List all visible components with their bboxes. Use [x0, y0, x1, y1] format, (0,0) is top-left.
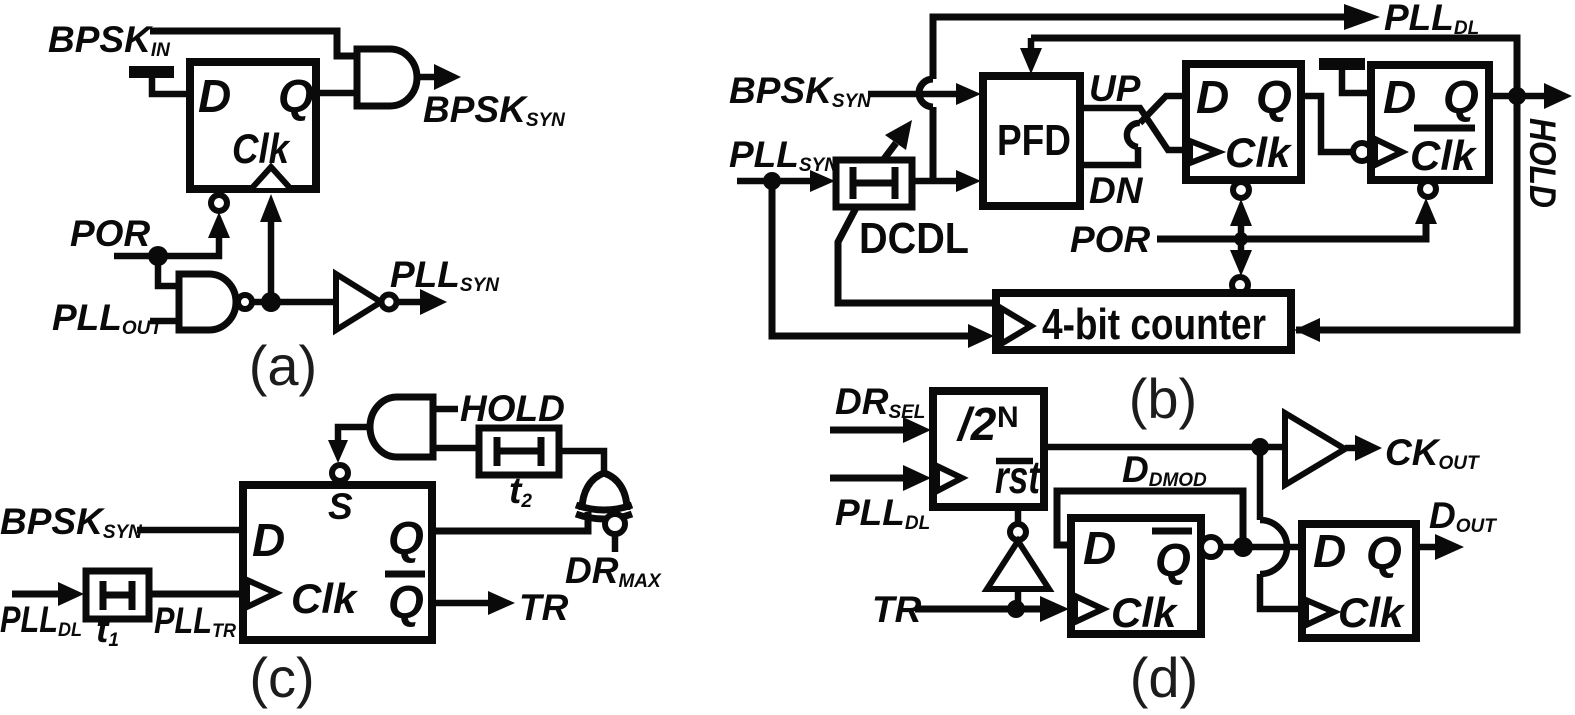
arrowhead into FF5 clock	[1040, 596, 1069, 622]
FF6 clock triangle	[1306, 600, 1334, 625]
wire HOLD to AND input	[433, 406, 458, 413]
arrowhead TR	[488, 591, 515, 615]
wire clock node to FF1 clock	[268, 220, 275, 302]
svg-text:POR: POR	[1070, 219, 1150, 260]
inverter bubble	[382, 295, 397, 310]
arrowhead into FF1 clock	[260, 194, 282, 222]
FF2 clock triangle	[1190, 141, 1218, 163]
wire tie stub to FF3 D	[1342, 70, 1371, 93]
wire FF4 Q to XOR input	[432, 512, 588, 531]
svg-text:HOLD: HOLD	[1522, 118, 1563, 208]
arrow PLL_DL into t1	[12, 591, 60, 598]
wire PLL_OUT stub to NAND bottom input	[150, 318, 179, 325]
wire t2 to XOR output	[559, 451, 604, 474]
FF5 clock triangle	[1075, 596, 1103, 622]
wire BPSK_SYN into PFD	[868, 91, 958, 98]
wire POR junction to NAND top input	[158, 256, 179, 286]
arrowhead PLL_DL	[1344, 4, 1380, 30]
t2 delay symbol	[494, 437, 501, 466]
wire POR	[1157, 222, 1426, 239]
FF4 clock triangle	[247, 580, 276, 607]
wire counter output to DCDL control	[838, 206, 996, 303]
wire inverter to TR node	[1015, 589, 1022, 609]
t1 delay box	[86, 571, 149, 619]
FF5 Qbar bubble	[1201, 537, 1221, 557]
wire vertical down to DCDL output node	[930, 107, 937, 181]
arrowhead into PFD fb input	[956, 170, 981, 192]
FF3 clock triangle	[1375, 139, 1402, 165]
wire AND input to t2	[433, 445, 479, 452]
FF3 label Clk inverted	[1414, 125, 1475, 132]
svg-text:N: N	[997, 401, 1019, 434]
wire down into PFD top	[1028, 38, 1035, 52]
wire divider rst to inverter	[1015, 507, 1022, 524]
svg-text:S: S	[328, 486, 353, 527]
arrowhead into FF1 reset bubble	[208, 212, 230, 238]
arrowhead D_OUT	[1435, 534, 1464, 560]
NAND gate G1	[179, 274, 236, 330]
junction dot POR	[1234, 232, 1248, 246]
svg-text:POR: POR	[70, 213, 150, 254]
junction dot CK node	[1251, 438, 1269, 456]
inverter G2	[336, 274, 381, 330]
junction dot clock node	[261, 292, 281, 312]
arrowhead into DCDL	[810, 170, 835, 192]
wire UP to FF2 clock crossing	[1080, 108, 1186, 150]
junction dot PLL_SYN	[763, 172, 781, 190]
arrowhead into FF2 reset bubble	[1230, 199, 1252, 226]
t2 delay box	[479, 428, 559, 475]
FF1 reset bubble	[211, 195, 227, 211]
junction dot HOLD	[1508, 87, 1526, 105]
wire t1 to FF4 clock	[149, 591, 243, 598]
NAND output bubble	[238, 295, 252, 309]
wire FF6 Q out D_OUT	[1416, 544, 1437, 551]
wire TR	[915, 606, 1040, 613]
wire PLL_SYN down to counter clock	[772, 181, 970, 336]
AND gate G4 left-facing	[370, 397, 433, 457]
buffer G7	[1285, 413, 1345, 485]
wire BPSK_SYN to FF4 D	[137, 527, 243, 534]
svg-text:Q: Q	[1256, 71, 1292, 123]
svg-text:UP: UP	[1089, 68, 1141, 109]
tie stub on FF3 D input	[1319, 58, 1365, 70]
svg-text:Q: Q	[388, 512, 424, 564]
svg-text:(d): (d)	[1130, 646, 1198, 709]
arrow PLL_DL into divider clock	[830, 475, 905, 482]
svg-text:Clk: Clk	[1410, 132, 1478, 179]
divider /2^N box	[933, 391, 1044, 507]
svg-text:Q: Q	[1366, 527, 1402, 579]
arrow DR_SEL into divider	[830, 427, 905, 434]
divider clock triangle	[937, 466, 962, 491]
svg-text:Clk: Clk	[232, 125, 291, 172]
arrow CK_OUT	[1345, 445, 1357, 452]
svg-text:D: D	[1313, 525, 1346, 577]
svg-text:PFD: PFD	[997, 116, 1071, 165]
svg-text:D: D	[198, 70, 231, 122]
AND gate G3	[357, 49, 417, 106]
svg-text:(b): (b)	[1129, 367, 1197, 430]
flip-flop FF5 box	[1071, 518, 1201, 634]
wire divider out to buffer	[1044, 444, 1285, 451]
counter clock triangle	[1001, 308, 1031, 344]
wire FF4 Qbar out TR	[432, 600, 490, 607]
arrowhead into FF3 reset bubble	[1415, 198, 1437, 224]
wire FF3 Q out HOLD	[1489, 93, 1546, 100]
junction dot D_DMOD	[1233, 537, 1253, 557]
hop of vertical wire over BPSK_SYN wire	[919, 79, 933, 107]
svg-text:rst: rst	[995, 451, 1041, 503]
wire PLL_SYN into DCDL	[737, 178, 812, 185]
svg-text:D: D	[1383, 71, 1416, 123]
DCDL delay symbol	[850, 167, 857, 199]
arrow out BPSK_SYN	[417, 74, 437, 81]
FF3 clock bubble	[1353, 143, 1371, 161]
DCDL delay box	[836, 160, 912, 207]
divider rst pin	[996, 458, 1033, 465]
svg-text:4-bit counter: 4-bit counter	[1042, 300, 1266, 349]
svg-text:Q: Q	[1155, 534, 1191, 586]
FF4 set bubble	[332, 465, 348, 481]
wire PLL_DL feedback top	[933, 17, 1348, 79]
arrowhead into counter reset bubble	[1230, 250, 1252, 276]
inverter G6 up-facing	[987, 541, 1049, 589]
wire HOLD feedback to PFD top	[1031, 38, 1517, 330]
FF5 pin Qbar	[1152, 528, 1192, 535]
tie stub on FF1 D input	[129, 66, 174, 78]
AND gate G4 output wire to set	[338, 427, 367, 442]
FF4 pin Qbar	[385, 571, 425, 578]
svg-text:TR: TR	[519, 587, 569, 628]
svg-text:HOLD: HOLD	[460, 388, 565, 429]
svg-text:Clk: Clk	[1225, 129, 1293, 176]
svg-text:Clk: Clk	[1111, 589, 1179, 636]
FF1 clock edge triangle	[252, 167, 290, 188]
wire DN to FF2 D with hop	[1080, 147, 1138, 165]
flip-flop FF6 box	[1302, 524, 1416, 638]
flip-flop FF1 box	[190, 62, 316, 189]
wire POR down to counter reset	[1238, 239, 1245, 252]
wire Qbar to node D_DMOD	[1220, 544, 1302, 551]
wire FF2 Q to FF3 clock	[1301, 96, 1352, 152]
arrow out PLL_SYN	[397, 299, 424, 306]
counter reset bubble	[1232, 277, 1248, 293]
DCDL control arrow through box	[884, 143, 896, 159]
arrowhead into counter clock	[968, 324, 994, 348]
arrowhead into PFD top	[1020, 48, 1042, 74]
wire DR_MAX input stub	[612, 534, 619, 552]
PFD box	[983, 76, 1080, 206]
inverter bubble	[1010, 524, 1026, 540]
XOR inverted input bubble	[605, 514, 625, 534]
flip-flop FF4 box	[243, 485, 432, 640]
wire POR up to FF2 reset	[1238, 224, 1245, 239]
junction dot on POR wire	[148, 246, 168, 266]
arrowhead into set bubble	[328, 440, 348, 463]
junction dot TR	[1007, 600, 1025, 618]
svg-text:DN: DN	[1089, 170, 1144, 211]
flip-flop FF2 box	[1186, 64, 1301, 180]
svg-text:D: D	[252, 514, 285, 566]
svg-text:Q: Q	[388, 576, 424, 628]
wire D_DMOD feedback to FF5 D	[1057, 491, 1243, 547]
XOR gate G5 up-facing	[582, 473, 627, 510]
arrowhead into PFD ref input	[956, 83, 981, 105]
FF2 reset bubble	[1233, 182, 1249, 198]
svg-text:Q: Q	[278, 70, 314, 122]
svg-text:(a): (a)	[249, 334, 317, 397]
wire BPSK_IN to AND top input	[150, 31, 358, 56]
t1 delay symbol	[100, 581, 107, 610]
svg-text:DCDL: DCDL	[859, 214, 969, 263]
wire NAND output to inverter	[253, 299, 336, 306]
wire DCDL output to PFD	[912, 178, 958, 185]
svg-text:/2: /2	[956, 398, 997, 450]
svg-text:D: D	[1196, 71, 1229, 123]
svg-text:Q: Q	[1443, 71, 1479, 123]
svg-text:(c): (c)	[249, 646, 314, 709]
arrowhead into counter right edge	[1294, 318, 1320, 342]
svg-text:Clk: Clk	[1338, 589, 1406, 636]
4-bit counter box	[996, 293, 1291, 350]
flip-flop FF3 box	[1371, 65, 1489, 180]
svg-text:D: D	[1083, 522, 1116, 574]
wire tie stub to FF1 D	[152, 77, 188, 94]
svg-text:Clk: Clk	[291, 575, 359, 622]
wire FF1 Q to AND bottom input	[316, 90, 358, 97]
FF3 reset bubble	[1420, 181, 1436, 197]
wire POR	[114, 234, 219, 256]
svg-text:TR: TR	[872, 589, 922, 630]
wire CK node down to FF6 clock with hop	[1257, 447, 1264, 520]
arrowhead HOLD out	[1544, 83, 1572, 109]
